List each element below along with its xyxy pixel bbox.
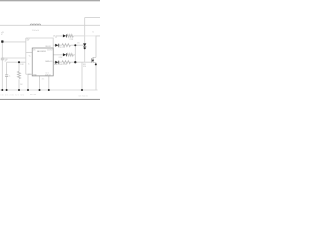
svg-text:.1: .1 — [9, 75, 11, 77]
svg-text:2.2K: 2.2K — [59, 57, 63, 59]
svg-text:ADC0831: ADC0831 — [37, 50, 47, 53]
svg-text:100uH: 100uH — [32, 30, 40, 32]
svg-text:V+: V+ — [29, 56, 31, 58]
svg-text:2.2K 1N: 2.2K 1N — [58, 47, 65, 49]
svg-text:2.2K: 2.2K — [20, 64, 25, 66]
svg-text:mn nm: mn nm — [30, 94, 36, 96]
svg-text:1K: 1K — [20, 84, 23, 86]
svg-text:1K: 1K — [77, 42, 80, 44]
svg-text:V: V — [1, 34, 3, 36]
svg-text:1N4148 2.2K: 1N4148 2.2K — [56, 64, 67, 66]
svg-text:nn Vref: nn Vref — [47, 49, 53, 52]
svg-text:D3: D3 — [54, 64, 56, 66]
svg-text:m: m — [28, 64, 30, 66]
svg-text:5V: 5V — [27, 40, 30, 42]
svg-text:D: D — [93, 31, 95, 33]
svg-text:nm mn rnm nrn mm: nm mn rnm nrn mm — [1, 95, 25, 97]
svg-text:510: 510 — [83, 66, 86, 68]
svg-text:2.2K: 2.2K — [70, 39, 74, 41]
svg-text:DATA DO: DATA DO — [45, 60, 53, 63]
svg-text:1N4148: 1N4148 — [45, 46, 51, 48]
svg-text:D1: D1 — [53, 36, 55, 38]
svg-text:mn: mn — [42, 79, 44, 81]
svg-text:nm mnn m: nm mnn m — [78, 95, 88, 97]
